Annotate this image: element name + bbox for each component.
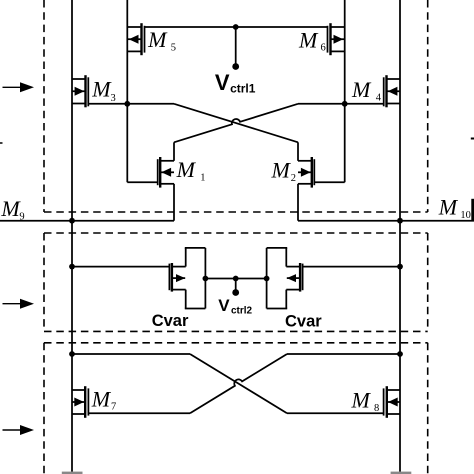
svg-text:M: M xyxy=(351,388,372,413)
svg-text:M: M xyxy=(298,28,319,53)
svg-text:7: 7 xyxy=(111,402,116,413)
svg-text:M: M xyxy=(438,195,459,220)
svg-text:10: 10 xyxy=(460,210,471,221)
svg-text:M: M xyxy=(91,387,112,412)
svg-text:2: 2 xyxy=(291,173,296,184)
svg-text:M: M xyxy=(351,77,372,102)
svg-text:M: M xyxy=(271,158,292,183)
svg-text:3: 3 xyxy=(111,93,116,104)
svg-text:V: V xyxy=(218,296,230,315)
svg-text:1: 1 xyxy=(200,173,205,184)
svg-text:4: 4 xyxy=(376,93,382,104)
svg-text:M: M xyxy=(91,76,112,101)
svg-text:ctrl2: ctrl2 xyxy=(231,306,253,317)
svg-text:M: M xyxy=(0,196,21,221)
svg-text:6: 6 xyxy=(321,43,326,54)
svg-text:M: M xyxy=(176,157,197,182)
svg-text:Cvar: Cvar xyxy=(152,312,189,330)
svg-text:ctrl1: ctrl1 xyxy=(230,82,256,96)
svg-text:V: V xyxy=(215,70,230,95)
svg-text:8: 8 xyxy=(374,403,379,414)
svg-text:Cvar: Cvar xyxy=(285,313,322,331)
svg-text:M: M xyxy=(147,27,168,52)
svg-text:9: 9 xyxy=(19,212,24,223)
svg-text:5: 5 xyxy=(171,43,176,54)
